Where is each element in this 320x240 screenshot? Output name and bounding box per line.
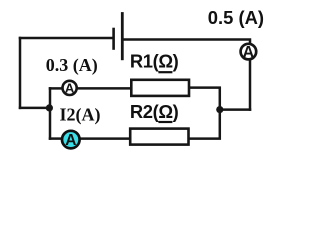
node B junction dot [216, 106, 223, 113]
svg-text:I2(A): I2(A) [60, 105, 101, 126]
svg-text:R2(Ω): R2(Ω) [130, 101, 179, 122]
wire right vertical below ammeter A3 [249, 61, 252, 110]
wire right mid horizontal to node B [220, 108, 250, 111]
wire R2 right elbow [190, 110, 220, 139]
battery negative plate (short) [112, 29, 115, 49]
wire stub node A to ammeter A1 [50, 87, 62, 90]
svg-text:0.5 (A): 0.5 (A) [208, 7, 264, 28]
label R2 omega underline [158, 121, 172, 123]
label R1 omega underline [158, 71, 172, 73]
wire top rail right (battery to top-right elbow) [122, 40, 250, 44]
wire left branch vertical [49, 88, 52, 138]
svg-text:A: A [65, 81, 75, 96]
wire top rail left (battery to top-left corner) [20, 37, 112, 40]
battery positive plate (long) [121, 14, 124, 59]
resistor R2 [130, 129, 188, 145]
svg-text:A: A [65, 132, 76, 149]
ammeter A3 (0.5 A, right) [241, 44, 257, 62]
node A junction dot [46, 104, 53, 111]
ammeter A1 (0.3 A) [63, 81, 77, 96]
svg-text:0.3 (A): 0.3 (A) [46, 55, 98, 76]
wire left vertical [19, 38, 22, 108]
ammeter I2 (cyan) [62, 131, 80, 149]
wire stub node to ammeter I2 [50, 137, 61, 140]
wire R1 left (ammeter A1 to box) [77, 87, 131, 90]
wire R2 left (ammeter I2 to box) [80, 137, 130, 140]
wire R1 right elbow [190, 88, 220, 110]
svg-text:A: A [243, 44, 255, 62]
svg-text:R1(Ω): R1(Ω) [130, 51, 179, 72]
resistor R1 [131, 80, 189, 96]
wire bottom-left horizontal to node A [20, 107, 50, 110]
